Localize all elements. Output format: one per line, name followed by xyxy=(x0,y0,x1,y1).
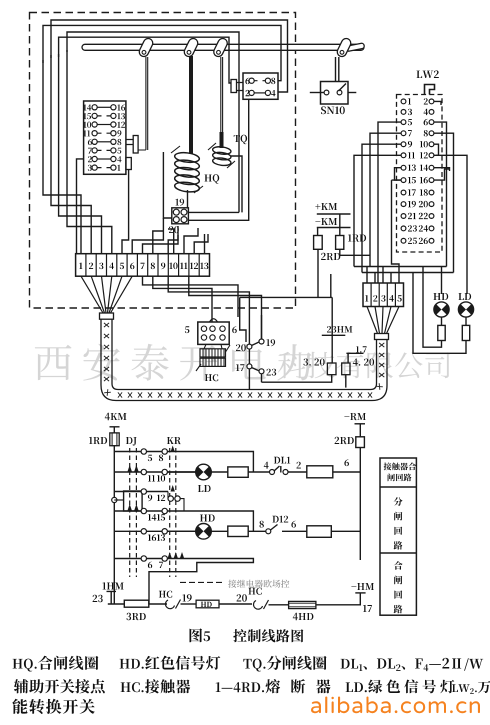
block A label 5 xyxy=(117,148,121,154)
strip B feed 4 xyxy=(390,273,392,284)
signal lamp LD lower xyxy=(196,464,212,480)
1HM tick xyxy=(107,591,117,604)
HC coil winding xyxy=(196,345,230,371)
-HM tick xyxy=(355,592,365,594)
bottom line f xyxy=(316,593,360,605)
strip B feed 2 xyxy=(374,273,376,284)
label 8 row xyxy=(159,455,163,462)
SN10 pin R xyxy=(337,90,342,95)
DJ dashed 2 xyxy=(135,448,137,577)
strip A num 3 xyxy=(99,263,103,270)
block A label 2 xyxy=(88,156,92,162)
SN10 drop wires xyxy=(336,57,339,82)
strip B num 4 xyxy=(389,295,394,302)
HQ bottom link xyxy=(187,190,189,208)
DJ arrow b xyxy=(134,465,138,472)
LW2 label 2 xyxy=(424,98,428,104)
label HC b2 xyxy=(248,588,261,595)
strip A feed c11 xyxy=(184,228,198,254)
block A link 10-12 xyxy=(97,124,111,126)
strip A num 8 xyxy=(151,263,155,270)
block A tab 1 xyxy=(133,136,138,154)
wire 19/20 left xyxy=(163,152,171,218)
label 4HD xyxy=(293,613,314,620)
LW2 label 15 xyxy=(408,177,416,183)
strip B feed 1 xyxy=(366,267,368,284)
block B label 2 xyxy=(246,90,250,96)
strip A divider 11 xyxy=(188,254,190,277)
strip A divider 12 xyxy=(198,254,200,277)
LD resistor return xyxy=(413,273,466,354)
DL1 to resistor xyxy=(288,471,307,473)
fuse 2RD lower xyxy=(356,437,365,448)
strip A num 13 xyxy=(200,263,208,270)
strip A divider 3 xyxy=(106,254,108,277)
LW2 pin 6 xyxy=(429,120,434,125)
LW2 label 7 xyxy=(408,130,412,136)
label 5 (HC) xyxy=(185,326,190,333)
LW2 pin13-15 hook xyxy=(395,168,402,180)
LW2 pin15 wire xyxy=(392,180,402,283)
row1 line xyxy=(114,452,253,473)
strip A divider 5 xyxy=(126,254,128,277)
strip B divider 2 xyxy=(378,283,380,307)
HQ hatch xyxy=(171,146,203,193)
label 17 xyxy=(363,605,372,612)
label LD upper xyxy=(458,293,471,300)
contact 6 xyxy=(141,556,146,561)
strip A divider 9 xyxy=(167,254,169,277)
strip A feed c6 xyxy=(132,218,163,254)
aux switch block B xyxy=(243,73,278,99)
label 2RD lower xyxy=(335,437,354,444)
label 20 b xyxy=(237,594,247,601)
HC contact hook 1 xyxy=(166,600,181,609)
info box bot 合 xyxy=(394,561,403,570)
signal lamp HD lower xyxy=(196,524,212,540)
label SN10 xyxy=(321,106,345,114)
wire L4 xyxy=(59,37,231,83)
label 1.7 xyxy=(356,346,367,352)
block A pin 6 xyxy=(92,139,97,144)
contact 23 xyxy=(259,369,264,374)
label 20 xyxy=(169,226,179,233)
coil HQ xyxy=(174,151,200,193)
LW2 pin9 wire xyxy=(362,144,401,272)
row5 to bus xyxy=(331,530,360,532)
watermark alibaba url xyxy=(311,697,480,714)
LW2 pin 26 xyxy=(429,238,434,243)
TQ hatch xyxy=(208,143,235,168)
block A pin 7 xyxy=(92,148,97,153)
label 23 (mid) xyxy=(267,369,277,376)
resistor 3.20 out xyxy=(262,375,332,383)
LW2 label 12 xyxy=(420,152,428,158)
4KM tick xyxy=(110,427,120,433)
label 15 row xyxy=(157,514,165,521)
bus bar xyxy=(82,44,364,50)
LW2 label 6 xyxy=(424,119,428,125)
row6 line xyxy=(114,559,253,605)
info box mid 回 xyxy=(394,527,402,535)
-KM line xyxy=(317,227,351,229)
LW2 pin 1 xyxy=(401,99,406,104)
-KM drop xyxy=(317,228,319,236)
block B link 2-4 xyxy=(254,92,265,94)
LW2 pin 17 xyxy=(401,190,406,195)
label 19 b xyxy=(183,594,192,601)
block B broken link xyxy=(254,80,265,82)
label 3RD xyxy=(126,613,145,620)
KR arrow d xyxy=(180,552,184,559)
SN10 lever xyxy=(339,84,347,92)
KR dashed 2 xyxy=(175,448,177,577)
block A left wire xyxy=(77,159,84,254)
legend L2a xyxy=(14,679,105,693)
row5 lamp link xyxy=(167,530,195,532)
row4 line xyxy=(114,511,253,531)
block A label 11 xyxy=(83,130,90,136)
left bus lower xyxy=(113,446,115,604)
HD resistor return xyxy=(423,267,442,348)
label DJ xyxy=(126,437,137,446)
HC contact hook 2 xyxy=(254,600,269,609)
-RM tick xyxy=(355,423,366,425)
cable cap right xyxy=(375,334,389,340)
strip A divider 1 xyxy=(85,254,87,277)
contact 16 xyxy=(141,529,146,534)
resistor 3.20 xyxy=(327,363,336,375)
bus node xyxy=(112,497,117,502)
block A pin 15 xyxy=(92,113,97,118)
LW2 pin 24 xyxy=(429,226,434,231)
HC block handle xyxy=(210,319,218,322)
label 2RD upper xyxy=(321,253,340,260)
contact 8 xyxy=(162,449,167,454)
strip B num 3 xyxy=(381,295,385,302)
strip A feed c7 xyxy=(143,226,179,254)
strip A divider 2 xyxy=(95,254,97,277)
TQ coil feed (thick) xyxy=(220,132,224,148)
label 20 (mid) xyxy=(236,344,246,351)
LW2 pin6 wire xyxy=(434,122,447,266)
label 2 xyxy=(297,462,301,469)
block A pin 16 xyxy=(111,105,116,110)
LW2 pin 9 xyxy=(401,142,406,147)
legend L2e xyxy=(452,681,490,694)
wire to terminal 1 xyxy=(43,60,81,254)
LW2 label 11 xyxy=(408,152,415,158)
D12 to resistor xyxy=(282,530,307,532)
legend L3 xyxy=(12,699,94,714)
fuse 1RD out xyxy=(340,249,370,255)
LW2 pin 12 xyxy=(429,153,434,158)
LW2 label 24 xyxy=(419,225,428,231)
label 9 row xyxy=(148,495,152,502)
block A link 6-8 xyxy=(97,141,111,143)
strip A divider 10 xyxy=(178,254,180,277)
info box bot 闸 xyxy=(394,576,402,585)
aux switch block A xyxy=(84,101,126,174)
wire 17-23 drop xyxy=(249,369,261,390)
label 7 row xyxy=(159,562,163,568)
connector pin xyxy=(173,209,179,215)
strip A num 10 xyxy=(169,263,177,270)
resistor 4.20 xyxy=(342,363,350,375)
contact 19 xyxy=(259,339,264,344)
strip A feed c10 xyxy=(168,235,178,254)
label 6 row5 xyxy=(291,521,296,528)
block A pin 14 xyxy=(92,105,97,110)
row2 line xyxy=(114,471,196,473)
label 1HM xyxy=(103,582,124,589)
contact 7 xyxy=(162,556,167,561)
wire 2RD-left xyxy=(240,249,333,297)
block A label 12 xyxy=(117,122,125,128)
block A label 4 xyxy=(117,156,121,162)
HC block pin xyxy=(220,326,225,331)
HC block pin xyxy=(220,335,225,340)
LW2 pin5 wire xyxy=(378,122,401,283)
contact 9 xyxy=(141,489,146,494)
label 19 (mid) xyxy=(267,339,276,346)
block A link 2-4 xyxy=(97,158,111,160)
KR arrow a xyxy=(171,446,175,453)
watermark company name part1 xyxy=(35,344,312,381)
HC block pin xyxy=(201,326,206,331)
LW2 pin 4 xyxy=(429,110,434,115)
legend L1b xyxy=(120,656,221,670)
block A label 1 xyxy=(117,165,120,171)
LW2 label 16 xyxy=(420,177,428,183)
strip A num 11 xyxy=(180,263,187,269)
bottom line e xyxy=(269,604,289,606)
label LW2 xyxy=(416,70,438,78)
wire 19 up xyxy=(249,315,261,364)
block B pin 4 xyxy=(265,90,270,95)
info box mid 闸 xyxy=(394,512,402,521)
LW2 pin 3 xyxy=(401,110,406,115)
contact DL1 a xyxy=(270,470,275,475)
LW2 pin 5 xyxy=(401,120,406,125)
cable outer edge xyxy=(101,319,387,400)
LW2 label 1 xyxy=(408,98,411,104)
block A broken link 15-13 xyxy=(97,115,111,117)
info box divider 1 xyxy=(380,486,416,488)
strip B divider 4 xyxy=(394,283,396,307)
row5 resistor link xyxy=(211,530,265,532)
LW2 pin7 wire xyxy=(370,133,401,266)
strip B divider 1 xyxy=(370,283,372,307)
contactor HC block xyxy=(198,322,229,344)
block A label 3 xyxy=(88,165,92,171)
block A label 13 xyxy=(117,113,125,119)
KR dashed 1 xyxy=(169,448,171,577)
connector pin xyxy=(181,209,187,215)
LW2 pin 11 xyxy=(401,153,406,158)
relay DJ box xyxy=(124,491,143,511)
label DL1 xyxy=(274,457,290,464)
info box title l2 xyxy=(388,474,412,482)
block B label 6 xyxy=(245,78,249,84)
block B pin 2 xyxy=(249,90,254,95)
watermark company name part2 xyxy=(278,352,450,379)
HD lamp drop xyxy=(441,267,443,295)
LW2 pin 25 xyxy=(401,238,406,243)
block A pin 13 xyxy=(111,113,116,118)
LW2 label 21 xyxy=(408,213,416,219)
LW2 pin 21 xyxy=(401,214,406,219)
label 3.20 xyxy=(303,359,324,366)
resistor row2 xyxy=(228,467,248,477)
row3 line xyxy=(114,491,168,493)
block B left tab xyxy=(231,80,237,93)
label TQ xyxy=(234,135,247,144)
strip A fan wires xyxy=(81,276,132,313)
info box mid 路 xyxy=(394,541,403,550)
LW2 pin10-12 hook xyxy=(434,144,439,155)
wire 239 down xyxy=(240,297,246,342)
LW2 pin11 wire xyxy=(354,155,401,266)
DJ arrow c xyxy=(128,504,132,511)
LW2 label 9 xyxy=(408,141,412,148)
strip B num 2 xyxy=(373,295,377,301)
LW2 pin 18 xyxy=(429,190,434,195)
LW2 pin12 wire xyxy=(436,155,467,294)
switch contact S4 with arm xyxy=(336,37,365,58)
block A pin 3 xyxy=(92,165,97,170)
info box divider 2 xyxy=(380,552,416,554)
+KM line xyxy=(317,213,351,215)
LW2 pin 14 xyxy=(429,165,434,170)
label 6 row2 xyxy=(344,459,349,466)
SN10 pin L xyxy=(324,90,329,95)
LW2 dashed box xyxy=(397,95,443,253)
label HD upper xyxy=(433,293,448,300)
contact 11 xyxy=(141,469,146,474)
LW2 label 13 xyxy=(408,165,416,171)
LW2 label 4 xyxy=(424,109,428,115)
label 10 row xyxy=(157,475,165,482)
strip B num 5 xyxy=(397,295,401,301)
TQ right link xyxy=(231,156,242,212)
leader line xyxy=(180,581,223,583)
fuse 1RD upper xyxy=(336,236,344,250)
block A pin 8 xyxy=(111,139,116,144)
block A pin 4 xyxy=(111,156,116,161)
row3 jog xyxy=(168,492,184,512)
label 4KM xyxy=(105,413,127,420)
block A tab1 stub xyxy=(126,140,133,145)
strip B fan wires xyxy=(367,307,399,334)
label 1RD lower xyxy=(89,437,107,444)
contact 17 xyxy=(247,364,252,369)
LW2 label 8 xyxy=(424,130,428,136)
resistor below LD xyxy=(462,325,469,340)
signal lamp LD xyxy=(458,302,473,317)
strip A out c8 xyxy=(153,276,212,322)
resistor row5 xyxy=(228,526,248,536)
switch contact S3 xyxy=(212,37,229,58)
strip A num 12 xyxy=(190,263,198,269)
KR arrow e xyxy=(171,485,175,492)
strip A num 5 xyxy=(120,263,124,269)
block A pin 12 xyxy=(111,122,116,127)
wire 19/20 upper right xyxy=(188,99,248,220)
block A pin 5 xyxy=(111,148,116,153)
strip A num 7 xyxy=(141,263,145,269)
bottom line d xyxy=(219,603,252,605)
DJ dashed 1 xyxy=(129,448,131,577)
info box title l1 xyxy=(384,463,416,471)
label HQ xyxy=(204,174,219,183)
LW2 pin 10 xyxy=(429,142,434,147)
legend L1c xyxy=(243,656,326,672)
connector block 19-20 xyxy=(172,208,189,224)
lever 20-19 xyxy=(252,342,260,346)
resistor below HD xyxy=(438,325,445,340)
LW2 label 3 xyxy=(408,109,412,115)
HC drop link xyxy=(204,344,222,348)
cable cross marks xyxy=(104,323,384,398)
block A tab 2 xyxy=(126,158,131,170)
strip A num 6 xyxy=(130,263,134,270)
block A broken link 3-1 xyxy=(97,167,111,169)
label 23HM xyxy=(327,326,352,333)
row2 to bus xyxy=(333,471,361,473)
switch contact S1 xyxy=(138,37,155,58)
cable inner edge xyxy=(112,319,377,389)
LW2 pin 22 xyxy=(429,214,434,219)
block A link 14-16 xyxy=(97,106,111,108)
fuse HD box xyxy=(196,600,219,608)
label 4.20 xyxy=(353,359,374,366)
label 5 row xyxy=(148,455,152,461)
dashed enclosure (operating mechanism) xyxy=(30,13,296,309)
label 4 xyxy=(264,462,269,469)
label 1RD upper xyxy=(348,234,366,241)
label 23 xyxy=(93,595,103,602)
right bus xyxy=(359,424,361,560)
LW2 pin 8 xyxy=(429,131,434,136)
strip A divider 6 xyxy=(136,254,138,277)
label HC xyxy=(205,374,218,381)
block A label 9 xyxy=(117,130,121,136)
SN10 left wire xyxy=(310,92,324,94)
legend L2c xyxy=(216,679,331,693)
1.7 tick xyxy=(346,353,363,363)
fuse 3RD xyxy=(124,600,149,607)
contact D12 a xyxy=(266,529,271,534)
terminal strip B xyxy=(363,283,404,307)
block A label 6 xyxy=(88,139,92,145)
HQ coil feed (thick) xyxy=(189,56,193,154)
strip B divider 3 xyxy=(386,283,388,307)
strip A divider 7 xyxy=(147,254,149,277)
wire to terminal 4 xyxy=(67,50,112,254)
block A broken link 7-5 xyxy=(97,149,111,151)
row2 lamp link xyxy=(167,471,195,473)
label -KM xyxy=(315,218,337,225)
block B pin 6 xyxy=(249,78,254,83)
LW2 label 10 xyxy=(420,141,428,147)
LW2 pin 20 xyxy=(429,202,434,207)
block A broken link 11-9 xyxy=(97,132,111,134)
contact 13 xyxy=(162,529,167,534)
label D12 xyxy=(272,516,288,523)
D12 lever xyxy=(271,525,278,531)
LW2 pin 15 xyxy=(401,178,406,183)
